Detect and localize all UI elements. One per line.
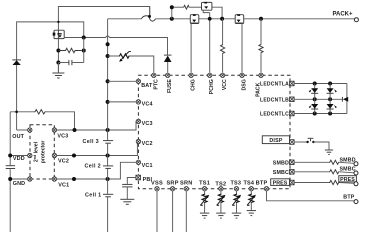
- node LED A1: [313, 82, 317, 86]
- svg-text:TS2: TS2: [215, 181, 226, 187]
- pin IC LEDCNTLC: [290, 111, 295, 116]
- svg-text:LEDCNTLA: LEDCNTLA: [260, 82, 289, 88]
- svg-text:CHG: CHG: [191, 79, 197, 91]
- wire LED row A: [294, 83, 347, 85]
- switch DISP button: [294, 138, 329, 149]
- pin IC SMBC: [290, 170, 295, 175]
- pin IC PRES: [290, 180, 295, 185]
- label PRES terminal boxed: [339, 176, 357, 183]
- transistor Q4 fuse-blow FET: [53, 30, 64, 38]
- LED D6 row B-C col 2: [327, 99, 337, 113]
- svg-text:OUT: OUT: [12, 134, 24, 140]
- svg-text:VC2: VC2: [142, 141, 153, 147]
- svg-text:VC1: VC1: [58, 182, 69, 188]
- node FET source / RC junction: [82, 36, 86, 40]
- LED D7 row B to bus: [342, 97, 348, 102]
- pin protector VC3: [52, 128, 56, 132]
- pin IC PACK: [259, 73, 263, 77]
- svg-text:TS3: TS3: [230, 180, 241, 186]
- resistor SMBD pull-up: [294, 160, 354, 164]
- svg-text:SMBC: SMBC: [339, 167, 355, 173]
- wire DSG gate column: [241, 24, 243, 73]
- pin protector VC2: [52, 153, 56, 157]
- svg-text:VC4: VC4: [142, 102, 153, 108]
- wire SRP column: [172, 191, 174, 232]
- svg-text:BTP: BTP: [256, 180, 268, 186]
- wire VC1 row: [57, 162, 139, 179]
- transistor Q3 PCHG FET: [202, 2, 212, 10]
- svg-text:VC1: VC1: [142, 163, 153, 169]
- wire VC2 row: [57, 142, 139, 156]
- node VDD: [8, 154, 12, 158]
- ground DISP button: [325, 150, 333, 154]
- wire CHG gate column: [190, 24, 192, 73]
- pin IC SMBD: [290, 160, 295, 165]
- node LED C1: [313, 112, 317, 116]
- svg-text:Cell 3: Cell 3: [83, 139, 99, 145]
- pin IC PCHG: [208, 73, 212, 77]
- wire PTC feed: [108, 52, 154, 73]
- pin IC FUSE: [166, 73, 170, 77]
- pin protector VC1: [52, 177, 56, 181]
- terminal PRES: [354, 182, 358, 186]
- wire cell stack vertical: [107, 19, 109, 232]
- svg-text:SMBD: SMBD: [339, 157, 355, 163]
- svg-text:LEDCNTLB: LEDCNTLB: [260, 97, 289, 103]
- terminal PACK+: [354, 18, 358, 22]
- node GND: [8, 177, 12, 181]
- resistor VCC series R: [221, 19, 225, 73]
- thermistor TS4: [247, 191, 256, 210]
- fuse chemical fuse F1: [142, 7, 156, 22]
- node rail bypass left: [170, 17, 174, 21]
- node VC3 row b: [106, 128, 110, 132]
- thermistor TS1: [200, 191, 209, 213]
- node bypass top: [170, 5, 174, 9]
- svg-text:Cell 2: Cell 2: [85, 163, 101, 169]
- wire R-C right vertical: [83, 38, 85, 63]
- resistor fuse-blow R: [58, 48, 81, 52]
- wire GND link: [10, 178, 27, 180]
- pin IC LEDCNTLA: [290, 81, 295, 86]
- node LED B2: [328, 97, 332, 101]
- capacitor fuse-blow C: [58, 60, 83, 65]
- node VC2 row a: [72, 154, 76, 158]
- diode D2 FUSE pin: [164, 55, 172, 73]
- svg-text:PRES: PRES: [273, 180, 288, 186]
- 2nd level protector box: [30, 125, 54, 179]
- svg-text:GND: GND: [13, 181, 26, 187]
- node VDD filter crossing: [15, 111, 18, 114]
- svg-text:PACK+: PACK+: [332, 11, 353, 17]
- transistor Q1 CHG FET: [190, 14, 199, 23]
- node stack PTC tap: [106, 54, 110, 58]
- IC bq gas gauge dashed outline: [138, 75, 290, 188]
- svg-text:SRN: SRN: [180, 180, 193, 186]
- ground TS2: [216, 213, 225, 218]
- wire PBI link and cap: [122, 178, 136, 200]
- svg-text:FUSE: FUSE: [167, 79, 173, 93]
- LED D3 row A-B col 1: [309, 84, 319, 100]
- resistor SMBC pull-up: [294, 170, 354, 174]
- pin IC PBI: [136, 175, 141, 180]
- wire PCHG pin column: [209, 13, 211, 73]
- label PRES pin boxed: [271, 179, 290, 187]
- pin IC VCC: [220, 73, 224, 77]
- pin protector GND: [28, 177, 32, 181]
- node VC3 row a: [73, 128, 77, 132]
- svg-text:VSS: VSS: [151, 180, 163, 186]
- ground fuse-blow: [52, 63, 64, 79]
- svg-text:DISP: DISP: [269, 138, 282, 144]
- resistor protector VDD filter R: [10, 110, 74, 130]
- pin IC VC3: [136, 119, 140, 123]
- svg-text:SMBD: SMBD: [273, 160, 289, 166]
- thermistor TS3: [232, 191, 241, 213]
- svg-text:PCHG: PCHG: [209, 79, 215, 94]
- wire BAT link: [108, 80, 139, 82]
- svg-text:LEDCNTLC: LEDCNTLC: [260, 112, 289, 118]
- wire VDD link: [10, 155, 27, 157]
- pin IC DISP: [290, 140, 295, 145]
- resistor PACK series R: [259, 19, 263, 73]
- wire main pack rail: [108, 18, 355, 20]
- svg-text:BAT: BAT: [141, 83, 153, 89]
- node VC2 row b: [106, 154, 110, 158]
- battery Cell 1: [85, 192, 113, 198]
- node PCHG rail junction: [208, 17, 212, 21]
- node stack VC4 tap: [106, 100, 110, 104]
- ground TS4: [247, 211, 256, 216]
- node R top-right: [82, 49, 86, 53]
- node stack BAT tap: [106, 79, 110, 83]
- pin IC SRP: [170, 187, 174, 191]
- svg-text:DSG: DSG: [242, 79, 248, 90]
- wire OUT link: [17, 129, 28, 131]
- node fuse-blow FET drain cross: [57, 21, 59, 23]
- node VC1 row b: [106, 177, 110, 181]
- pin IC SRN: [184, 187, 188, 191]
- wire LED row B: [294, 98, 342, 100]
- pin IC TS2: [219, 187, 223, 191]
- LED D4 row A-B col 2: [327, 84, 337, 100]
- wire SRN column: [185, 191, 187, 232]
- svg-text:VC3: VC3: [142, 121, 153, 127]
- LED D5 row B-C col 1: [309, 99, 319, 113]
- node stack top tap: [106, 42, 110, 46]
- wire VC4 link: [108, 101, 139, 103]
- label DISP boxed: [262, 136, 289, 144]
- wire left rail lower: [9, 112, 11, 232]
- pin IC LEDCNTLB: [290, 97, 295, 102]
- svg-text:PTC: PTC: [153, 79, 159, 90]
- svg-text:SRP: SRP: [166, 180, 178, 186]
- pin IC TS3: [234, 187, 238, 191]
- svg-text:VC3: VC3: [57, 134, 68, 140]
- svg-text:Cell 1: Cell 1: [85, 192, 101, 198]
- thermistor TS2: [217, 191, 226, 213]
- battery Cell 3: [83, 139, 114, 145]
- terminal SMBC: [354, 171, 358, 175]
- svg-text:SMBC: SMBC: [273, 170, 289, 176]
- pin protector VDD: [28, 153, 32, 157]
- diode D1 on PACK- branch: [12, 60, 21, 65]
- wire PACK- top rail left: [17, 22, 84, 130]
- pin IC BAT: [136, 79, 140, 83]
- wire VSS column: [156, 191, 158, 232]
- wire LED right bus: [346, 84, 348, 114]
- transistor Q2 DSG FET: [235, 14, 244, 23]
- pin IC TS1: [202, 187, 206, 191]
- wire FET source to fuse-pin diode feed: [64, 36, 167, 55]
- svg-text:TS4: TS4: [243, 180, 254, 186]
- ground PBI: [120, 199, 134, 204]
- node R top-left: [56, 49, 60, 53]
- pin IC VC2: [136, 139, 140, 143]
- pin protector OUT: [28, 128, 32, 132]
- pin IC TS4: [249, 187, 253, 191]
- pin IC VSS: [155, 187, 159, 191]
- svg-text:protector: protector: [41, 141, 47, 164]
- ground TS3: [232, 213, 241, 218]
- wire BTP out: [267, 191, 354, 201]
- pin IC PTC: [152, 73, 156, 77]
- node rail VCC tap: [220, 17, 224, 21]
- svg-text:TS1: TS1: [199, 180, 210, 186]
- node rail PACK tap: [259, 17, 263, 21]
- pin IC VC4: [136, 100, 140, 104]
- wire FET bottom column: [57, 39, 59, 72]
- svg-text:VDD: VDD: [13, 156, 25, 162]
- pin IC CHG: [189, 73, 193, 77]
- wire VC3 row: [57, 121, 139, 130]
- svg-text:PRES: PRES: [340, 177, 355, 183]
- wire LED row C: [294, 113, 347, 115]
- svg-text:VCC: VCC: [222, 79, 228, 90]
- pin IC BTP: [264, 187, 268, 191]
- svg-text:BTP: BTP: [343, 195, 354, 201]
- pin IC DSG: [240, 73, 244, 77]
- node LED B1: [313, 97, 317, 101]
- battery Cell 2: [85, 163, 114, 169]
- node C left: [56, 61, 60, 65]
- wire precharge bypass branch: [172, 5, 222, 19]
- wire PCHG gate link: [203, 10, 210, 12]
- terminal BTP: [354, 200, 358, 204]
- svg-text:VC2: VC2: [58, 159, 69, 165]
- node LED A2: [328, 82, 332, 86]
- ground TS1: [200, 213, 209, 218]
- resistor PRES pull-up: [294, 180, 354, 184]
- node VC1 row a: [72, 177, 76, 181]
- node LED C2: [328, 112, 332, 116]
- pin IC VC1: [136, 160, 140, 164]
- terminal SMBD: [354, 162, 358, 166]
- capacitor VDD bypass: [6, 166, 15, 169]
- wire fuse-tap top link: [58, 7, 149, 30]
